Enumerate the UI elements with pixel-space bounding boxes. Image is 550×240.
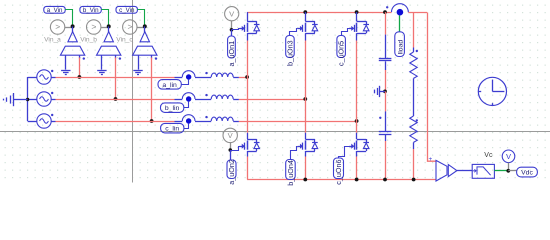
gate wire Q3 <box>290 29 298 36</box>
goto tag a_Vin <box>44 6 65 14</box>
wire Q4 source to bottom bus <box>305 157 307 180</box>
neutral junction <box>26 98 29 101</box>
junction bus / capacitor branch <box>383 10 387 14</box>
phase c row wire (red) <box>56 121 175 123</box>
midpoint junction <box>383 90 387 94</box>
node junction a <box>71 24 75 28</box>
inductor Lc output lead <box>233 121 239 123</box>
wire source Vc left <box>28 121 37 123</box>
wire node to tag c_lin <box>184 124 189 129</box>
ammeter Iload lead (green) <box>399 16 401 32</box>
wire R1 to R2 <box>413 78 415 116</box>
goto tag c_lin <box>161 123 184 132</box>
page boundary horizontal line <box>0 131 550 133</box>
svg-text:b_uOn4: b_uOn4 <box>286 160 295 186</box>
svg-text:a_uOn1: a_uOn1 <box>227 41 236 67</box>
junction sensor b / row <box>114 97 118 101</box>
phase b row wire (red) <box>56 99 175 101</box>
MOSFET Q3 (top, phase b) with body diode <box>298 21 318 33</box>
wire node to sensor b <box>108 26 110 32</box>
wire node to sensor c <box>144 26 146 32</box>
inductor Lb <box>205 94 233 99</box>
wire node to box uOn2 <box>230 150 232 160</box>
gate wire Q4 <box>291 147 298 160</box>
gate wire Q2 <box>230 147 239 151</box>
svg-text:Vin_a: Vin_a <box>44 37 61 44</box>
AC source Vc <box>37 114 54 128</box>
wire node to inductor La <box>195 77 211 79</box>
MOSFET Q4 drain lead <box>305 133 307 139</box>
voltmeter lead (gate a top) <box>231 21 233 30</box>
voltmeter Vc lead <box>508 163 510 171</box>
clock block <box>478 77 506 105</box>
ground under sensor b <box>97 71 106 75</box>
ammeter Iload <box>395 32 405 57</box>
MOSFET Q6 drain lead <box>356 133 358 139</box>
phase c row wire into node <box>175 121 183 123</box>
node junction b <box>107 24 111 28</box>
gate wire Q6 <box>339 147 350 159</box>
voltmeter lead (gate a bottom) <box>230 143 232 150</box>
svg-text:c_lin: c_lin <box>165 126 179 133</box>
wire node to tag b_lin <box>184 102 189 108</box>
capacitor C2 top lead (red) <box>385 91 387 111</box>
resistor R1 <box>410 52 417 78</box>
svg-text:Vdc: Vdc <box>521 170 533 177</box>
voltage sensor trapezoid <box>436 160 447 181</box>
right bus drop <box>428 13 437 162</box>
ammeter node arc <box>392 4 409 12</box>
svg-text:Iload: Iload <box>397 40 404 55</box>
wire Q5 source to row <box>356 41 358 122</box>
junction bottom bus / resistor branch <box>412 178 416 182</box>
sensor body (trapezoid) c <box>133 46 157 55</box>
voltage probe Vin_a <box>50 20 64 34</box>
sensor triangle a <box>68 32 77 42</box>
phase b row wire into node <box>175 99 183 101</box>
gate source label box uOn4 <box>286 160 296 186</box>
resistor R2 bottom lead (red) <box>413 149 415 180</box>
probe Vin_c lead <box>137 27 144 29</box>
ground under sensor c <box>133 71 142 75</box>
ground under sensor a <box>61 71 70 75</box>
wire from tag a_Vin to node (green) <box>65 10 72 27</box>
label Vc <box>484 152 493 159</box>
wire source Va right (blue stub) <box>51 77 55 79</box>
gate node a top <box>230 28 234 32</box>
wire row to MOSFET Q6 <box>356 121 358 133</box>
phase a row wire (red) <box>56 77 175 79</box>
AC source Vb <box>37 92 54 106</box>
svg-text:Vin_c: Vin_c <box>116 37 133 44</box>
capacitor C1 bottom lead <box>385 61 387 70</box>
wire inductor Lc to leg <box>239 121 357 123</box>
MOSFET Q4 (bottom, phase b) with body diode <box>298 139 318 152</box>
wire Q3 source to row <box>305 41 307 100</box>
capacitor C2 bottom lead <box>385 134 387 141</box>
wire gain to filter block <box>457 170 472 172</box>
gate source label box uOn2 <box>227 159 236 185</box>
capacitor C1 <box>379 59 392 61</box>
phase a row wire into node <box>175 77 183 79</box>
voltage probe Vin_c <box>123 20 137 34</box>
goto tag Vdc <box>517 167 538 177</box>
wire node to inductor Lb <box>195 99 211 101</box>
svg-text:a_lin: a_lin <box>162 82 177 89</box>
wire node to sensor a <box>72 26 74 32</box>
goto tag c_Vin <box>116 6 137 14</box>
capacitor C1 polarity marker <box>386 6 388 8</box>
node arc over b_lin node <box>182 93 195 99</box>
junction bottom bus / capacitor branch <box>383 178 387 182</box>
label Vin_a <box>44 37 61 44</box>
gate source label box uOn5 <box>337 36 346 67</box>
junction sensor c / row <box>150 119 154 123</box>
capacitor C1 top lead (red) <box>385 12 387 34</box>
AC source Va <box>37 70 54 84</box>
MOSFET Q6 (bottom, phase c) with body diode <box>349 139 369 152</box>
svg-text:a_uOn2: a_uOn2 <box>227 159 236 185</box>
wire node to tag Vdc <box>508 170 516 172</box>
wire sensor c to phase row <box>151 58 153 122</box>
sensor triangle c <box>140 32 149 42</box>
grid dots background <box>0 0 550 184</box>
goto tag b_lin <box>161 103 184 113</box>
inductor La output lead <box>233 77 239 79</box>
MOSFET Q4 source lead <box>305 151 307 157</box>
MOSFET Q3 drain lead <box>305 12 307 21</box>
junction top bus / leg b <box>303 10 307 14</box>
capacitor C2 polarity marker <box>379 117 381 119</box>
capacitor C1 top lead (blue) <box>385 35 387 59</box>
svg-text:c_uOn6: c_uOn6 <box>334 160 343 185</box>
capacitor C2 top lead (blue) <box>385 111 387 131</box>
positive DC bus right of ammeter node <box>408 12 427 14</box>
wire source Vb left <box>28 99 37 101</box>
voltmeter Vc <box>502 150 515 163</box>
sensor body (trapezoid) a <box>60 46 84 55</box>
wire source Vb right (blue stub) <box>51 99 55 101</box>
MOSFET Q2 drain lead <box>247 133 249 139</box>
wire Q1 source to row <box>247 41 249 78</box>
filter block (transfer function) <box>472 164 494 178</box>
goto tag a_lin <box>158 80 181 90</box>
inductor Lb output lead <box>233 99 239 101</box>
node junction c <box>143 24 147 28</box>
wire source Va left <box>28 77 37 79</box>
node a_lin (blue dot) <box>186 74 191 79</box>
page boundary vertical line <box>132 0 134 183</box>
sensor b right leg <box>115 55 117 58</box>
MOSFET Q2 source lead <box>247 151 249 157</box>
wire node to inductor Lc <box>195 121 211 123</box>
wire row to MOSFET Q2 <box>247 77 249 133</box>
node c_lin (blue dot) <box>186 118 191 123</box>
sensor a left leg <box>65 55 67 69</box>
capacitor C2 <box>379 132 392 135</box>
svg-text:>: > <box>91 22 96 32</box>
ammeter node (blue dot) <box>397 9 404 16</box>
sensor c right leg <box>151 55 153 58</box>
gate source label box uOn6 <box>334 158 344 185</box>
wire C2 to bottom bus <box>385 141 387 180</box>
resistor R2 <box>410 116 417 142</box>
wire C1 to midpoint <box>385 70 387 91</box>
gate source label box uOn3 <box>285 36 294 67</box>
wire Q2 source to bottom bus <box>247 157 249 180</box>
wire from tag c_Vin to node (green) <box>137 10 144 27</box>
voltmeter V (gate a bottom) <box>223 128 237 142</box>
voltage sensor (trapezoid) input marker <box>429 156 433 163</box>
gate wire Q1 <box>232 29 240 30</box>
svg-text:c_Vin: c_Vin <box>119 7 135 14</box>
label Vin_c <box>116 37 133 44</box>
junction sensor a / row <box>78 75 82 79</box>
node arc over a_lin node <box>182 71 195 77</box>
ground (left, neutral) <box>4 93 28 106</box>
svg-text:a_Vin: a_Vin <box>47 7 63 14</box>
wire Q6 source to bottom bus <box>356 157 358 180</box>
label Vin_b <box>80 37 97 44</box>
wire sensor b to phase row <box>115 58 117 100</box>
voltmeter V (gate a top) <box>225 7 239 21</box>
wire sensor a to phase row <box>79 58 81 78</box>
sensor a polarity dot <box>83 57 85 59</box>
sensor b polarity dot <box>119 57 121 59</box>
inductor Lc <box>205 116 233 121</box>
gain block (triangle) <box>448 165 457 177</box>
ground (DC midpoint) <box>375 86 386 97</box>
MOSFET Q1 (top, phase a) with body diode <box>240 21 260 33</box>
MOSFET Q1 source lead <box>247 33 249 40</box>
probe Vin_a lead <box>65 27 72 29</box>
positive DC bus (top) <box>247 12 391 14</box>
wire row to MOSFET Q4 <box>305 99 307 133</box>
wire inductor Lb to leg <box>239 99 305 101</box>
sensor c left leg <box>138 55 140 69</box>
wire inductor La to leg <box>239 77 247 79</box>
svg-text:b_uOn3: b_uOn3 <box>285 40 294 66</box>
sensor b left leg <box>101 55 103 69</box>
svg-text:>: > <box>55 22 60 32</box>
probe Vin_b lead <box>101 27 108 29</box>
junction phase b / leg <box>303 97 307 101</box>
wire node to tag a_lin <box>181 80 188 85</box>
svg-text:c_uOn5: c_uOn5 <box>337 41 346 66</box>
node arc over c_lin node <box>182 115 195 121</box>
svg-text:Vin_b: Vin_b <box>80 37 97 44</box>
wire from tag b_Vin to node (green) <box>101 10 108 27</box>
junction bottom bus / leg b <box>303 178 307 182</box>
neutral vertical wire <box>27 77 29 121</box>
MOSFET Q1 drain lead <box>247 12 249 21</box>
junction phase a / leg <box>245 75 249 79</box>
svg-text:+: + <box>429 156 433 163</box>
sensor c polarity dot <box>155 57 157 59</box>
svg-text:b_lin: b_lin <box>165 105 180 112</box>
junction top bus / leg c <box>355 10 359 14</box>
wire source Vc right (blue stub) <box>51 121 55 123</box>
resistor R1 top lead (blue) <box>413 48 415 53</box>
inductor La <box>205 72 233 77</box>
MOSFET Q5 drain lead <box>356 12 358 21</box>
gate source label box uOn1 <box>227 36 236 67</box>
svg-text:>: > <box>127 22 132 32</box>
resistor R2 marker <box>416 119 418 121</box>
resistor R1 marker <box>416 50 418 52</box>
MOSFET Q6 source lead <box>356 151 358 157</box>
sensor a right leg <box>79 55 81 58</box>
sensor triangle b <box>104 32 113 42</box>
goto tag b_Vin <box>80 6 101 14</box>
sensor body (trapezoid) b <box>97 46 121 55</box>
negative DC bus (bottom) <box>247 179 436 181</box>
gate node a bottom <box>229 148 233 152</box>
node b_lin (blue dot) <box>186 96 191 101</box>
junction bottom bus / leg c <box>355 178 359 182</box>
MOSFET Q5 source lead <box>356 33 358 40</box>
svg-text:b_Vin: b_Vin <box>83 7 99 14</box>
wire node to box uOn1 <box>231 30 233 36</box>
voltage probe Vin_b <box>87 20 101 34</box>
wire filter to node Vdc (green) <box>494 170 508 172</box>
MOSFET Q5 (top, phase c) with body diode <box>349 21 369 33</box>
MOSFET Q2 (bottom, phase a) with body diode <box>240 139 260 152</box>
resistor R2 bottom lead (blue) <box>413 142 415 149</box>
resistor R1 top lead (red) <box>413 12 415 47</box>
gate wire Q5 <box>342 29 350 36</box>
MOSFET Q3 source lead <box>305 33 307 40</box>
node Vdc <box>506 169 510 173</box>
svg-text:Vc: Vc <box>484 152 493 159</box>
junction phase c / leg <box>355 119 359 123</box>
